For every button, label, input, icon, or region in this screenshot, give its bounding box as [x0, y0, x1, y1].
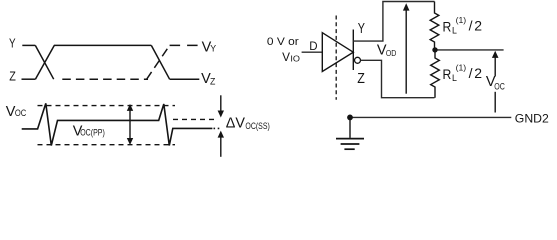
- inverting output bubble: [355, 57, 361, 63]
- measure arrow down (delta VOC ss top): [218, 95, 224, 117]
- svg-text:2: 2: [474, 18, 482, 34]
- svg-text:OC: OC: [15, 108, 27, 118]
- svg-text:Y: Y: [358, 21, 365, 37]
- label VOC(PP): [73, 123, 105, 139]
- wire top dashed to VY: [170, 44, 198, 46]
- wire GND2 rail: [350, 116, 511, 118]
- label VIO: [282, 50, 300, 64]
- ground symbol GND2: [336, 117, 364, 149]
- node junction dot: [432, 47, 437, 52]
- svg-text:0 V or: 0 V or: [267, 36, 299, 48]
- resistor RL/2 upper: [430, 2, 439, 50]
- wire crossing2 falling solid: [151, 45, 169, 79]
- dashed peak upper bound: [38, 105, 176, 107]
- label VY: [202, 39, 217, 55]
- label VZ: [201, 71, 216, 87]
- svg-text:(1): (1): [456, 16, 467, 25]
- svg-text:L: L: [452, 26, 457, 36]
- wire crossing2 rising dashed: [147, 45, 170, 79]
- wire Y level stub: [22, 44, 35, 46]
- svg-text:OD: OD: [386, 48, 396, 58]
- dashed VOC steady level extension: [173, 118, 218, 120]
- svg-text:OC: OC: [494, 82, 505, 92]
- svg-text:D: D: [309, 41, 317, 53]
- svg-text:2: 2: [474, 65, 482, 81]
- wire driver input: [302, 51, 323, 53]
- label RL(1)/2 upper: [443, 16, 483, 36]
- driver output bar: [352, 30, 354, 71]
- svg-text:ΔV: ΔV: [226, 115, 246, 131]
- measure arrow VOC up (circuit): [492, 51, 499, 113]
- wire crossing1 falling: [35, 45, 53, 79]
- label VOC (waveform): [6, 104, 27, 120]
- op-amp driver U1 triangle: [322, 33, 353, 72]
- svg-text:OC(SS): OC(SS): [245, 121, 269, 131]
- wire Y output to load: [353, 2, 434, 42]
- wire crossing1 rising: [35, 45, 54, 79]
- svg-text:R: R: [443, 18, 452, 34]
- isolation barrier dashed line: [335, 16, 337, 100]
- measure arrow up (delta VOC ss bottom): [218, 131, 224, 157]
- label RL(1)/2 lower: [443, 64, 483, 84]
- svg-text:Z: Z: [357, 71, 365, 87]
- svg-text:GND2: GND2: [515, 112, 549, 126]
- resistor RL/2 lower: [431, 50, 440, 98]
- svg-text:Y: Y: [9, 35, 16, 50]
- node junction dot at ground: [347, 115, 353, 121]
- svg-text:L: L: [452, 73, 457, 83]
- svg-text:Z: Z: [9, 69, 16, 84]
- svg-text:/: /: [469, 18, 473, 34]
- label delta VOC(SS): [226, 115, 270, 131]
- label VOC (circuit): [486, 74, 506, 92]
- wire Z level stub: [22, 78, 36, 80]
- wire top level solid: [54, 44, 151, 46]
- VOC waveform trace: [22, 103, 213, 145]
- wire center tap to VOC arrow: [438, 49, 504, 51]
- measure arrow VOC(PP) double-headed: [127, 104, 133, 145]
- label VOD: [377, 43, 396, 59]
- dashed peak lower bound: [38, 144, 176, 146]
- svg-text:R: R: [443, 66, 452, 82]
- svg-text:OC(PP): OC(PP): [80, 127, 105, 137]
- wire bottom solid to VZ: [170, 78, 200, 80]
- dotted continuation of settled level: [214, 127, 222, 129]
- svg-text:/: /: [469, 65, 473, 81]
- wire bottom level dashed: [62, 78, 148, 80]
- svg-text:IO: IO: [290, 53, 300, 63]
- wire Z output to load: [361, 60, 435, 97]
- svg-text:Y: Y: [210, 44, 216, 54]
- svg-text:(1): (1): [456, 64, 467, 73]
- svg-text:V: V: [282, 50, 290, 64]
- svg-text:Z: Z: [210, 76, 216, 86]
- measure arrow VOD up: [403, 3, 410, 93]
